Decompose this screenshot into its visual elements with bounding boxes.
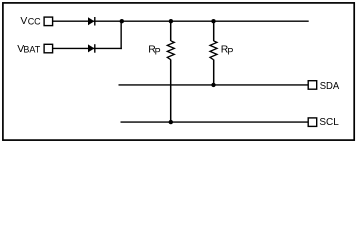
svg-text:P: P	[155, 46, 161, 56]
svg-text:V: V	[20, 16, 27, 27]
svg-text:BAT: BAT	[23, 45, 40, 55]
svg-text:SCL: SCL	[319, 117, 339, 128]
svg-text:SDA: SDA	[320, 81, 340, 92]
svg-text:P: P	[227, 46, 233, 56]
svg-text:CC: CC	[28, 17, 41, 27]
